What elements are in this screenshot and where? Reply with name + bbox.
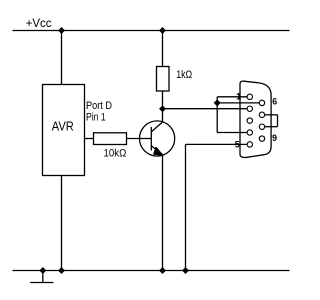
wire: stub to pin 4 [217, 132, 247, 134]
ground symbol bar [30, 282, 53, 284]
junction: Vcc rail / R1 [159, 27, 166, 34]
transistor Q1 emitter arrow [154, 148, 162, 155]
ground symbol stub [42, 271, 44, 283]
junction: emitter on rail [159, 267, 166, 274]
wire: loop pin 8 back [265, 126, 278, 128]
wire: loop vertical 7-8 [277, 115, 279, 127]
wire: bracket vertical tying pins 1-4-6 [216, 97, 218, 133]
connector J1 DB9 shell outline [240, 81, 271, 157]
svg-text:10kΩ: 10kΩ [104, 147, 127, 159]
junction: collector node [159, 105, 166, 112]
junction: bracket / pin 6 stub [214, 99, 221, 106]
junction: AVR ground on rail [58, 267, 65, 274]
resistor R1 1k body [157, 67, 170, 92]
wire: collector node to DB9 pin 2 [163, 108, 248, 110]
svg-text:6: 6 [272, 97, 277, 107]
resistor R2 10k body [94, 133, 127, 145]
IC U1 AVR body [43, 85, 85, 176]
wire: AVR Port D Pin 1 to R2 [85, 138, 94, 140]
junction: Vcc rail / AVR supply [58, 27, 65, 34]
J1 pin 2 [247, 106, 252, 111]
junction: ground symbol on rail [39, 267, 46, 274]
transistor Q1 emitter stroke [152, 146, 163, 155]
transistor Q1 collector stroke [152, 122, 163, 132]
wire: R1 bottom to collector node [162, 91, 164, 122]
wire: DB9 pin 5 down leg [185, 144, 187, 270]
J1 pin 1 [247, 94, 252, 99]
wire: stub to pin 6 [217, 102, 259, 104]
J1 pin 4 [247, 130, 252, 135]
J1 pin 3 [247, 118, 252, 123]
svg-text:Pin 1: Pin 1 [86, 111, 106, 123]
J1 pin 7 [259, 112, 264, 117]
svg-text:1kΩ: 1kΩ [176, 69, 192, 81]
svg-text:9: 9 [272, 133, 277, 143]
J1 pin 6 [259, 100, 264, 105]
wire: loop pin 7 out [265, 114, 278, 116]
wire: Vcc to R1 top [162, 31, 164, 67]
wire: DB9 pin 5 horizontal [186, 143, 248, 145]
svg-text:5: 5 [235, 140, 240, 150]
wire: ground rail [13, 270, 290, 272]
junction: pin5 return on rail [182, 267, 189, 274]
J1 pin 8 [259, 124, 264, 129]
wire: R2 to Q1 base [127, 138, 152, 140]
transistor Q1 body circle [140, 121, 175, 156]
wire: +Vcc top rail [13, 30, 290, 32]
svg-text:+Vcc: +Vcc [26, 16, 52, 30]
transistor Q1 base bar [150, 127, 152, 151]
J1 pin 9 [259, 136, 264, 141]
wire: Q1 emitter to ground rail [162, 156, 164, 271]
wire: stub to pin 1 [217, 96, 247, 98]
wire: AVR bottom to ground rail [61, 176, 63, 271]
svg-text:AVR: AVR [52, 120, 74, 134]
svg-text:Port D: Port D [86, 100, 112, 112]
wire: Vcc to AVR top [61, 31, 63, 85]
J1 pin 5 [247, 142, 252, 147]
